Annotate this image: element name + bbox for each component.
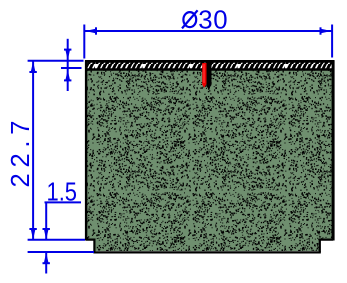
22.7 arrow bottom bbox=[31, 229, 36, 240]
bottom edge bbox=[93, 251, 320, 253]
1.5 arrow lower (up) bbox=[44, 252, 49, 263]
part outline bbox=[85, 60, 334, 252]
svg-text:30: 30 bbox=[198, 7, 228, 35]
red marker pin bbox=[202, 63, 206, 88]
knob body section fill (stipple) bbox=[87, 70, 332, 251]
band arrow top (down) bbox=[65, 50, 70, 61]
o30 ext line right bbox=[331, 25, 333, 58]
o30 text diameter symbol bbox=[182, 10, 198, 28]
o30 arrow left bbox=[85, 29, 96, 33]
ext line top (band top) bbox=[28, 60, 84, 62]
o30 ext line left bbox=[83, 25, 85, 59]
22.7 arrow top bbox=[31, 61, 36, 71]
ext line bottom bbox=[28, 239, 85, 241]
hatch band at top of knob bbox=[87, 62, 333, 69]
band dimension: leader vertical bbox=[61, 39, 82, 91]
hatch band bottom line bbox=[85, 68, 334, 70]
left step bbox=[86, 240, 94, 253]
1.5 text underline bbox=[45, 201, 82, 203]
svg-text:1.5: 1.5 bbox=[47, 179, 78, 207]
band arrow bottom (up) bbox=[65, 70, 70, 81]
o30 arrow right bbox=[321, 29, 332, 33]
svg-text:22.7: 22.7 bbox=[7, 121, 35, 188]
ext line bottom y252 bbox=[28, 251, 94, 253]
right step bbox=[320, 240, 333, 253]
right edge bbox=[332, 60, 335, 240]
left edge bbox=[85, 60, 87, 240]
red marker black shadow bbox=[206, 62, 211, 89]
band dim short ext bar bbox=[61, 67, 82, 69]
dimension 22.7: dim line bbox=[28, 61, 85, 240]
red marker highlight bbox=[203, 64, 205, 83]
1.5 arrow upper (down) bbox=[44, 229, 49, 240]
dimension 1.5: leader vertical upper bbox=[28, 202, 94, 273]
top edge bbox=[85, 60, 334, 63]
dimension o30: dim line bbox=[84, 25, 332, 59]
1.5 leader vertical lower bbox=[45, 252, 47, 273]
